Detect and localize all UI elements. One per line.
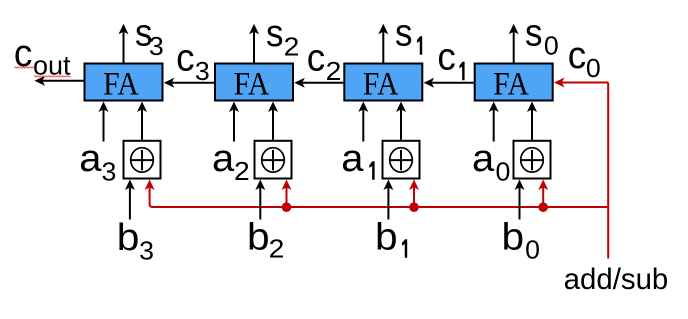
wire sum output s0 arrow xyxy=(509,24,519,63)
full adder FA1 box xyxy=(344,64,422,102)
wire red add/sub vertical line xyxy=(607,83,609,259)
svg-text:b: b xyxy=(502,216,525,258)
label a1 xyxy=(341,138,374,180)
label s2 xyxy=(266,11,299,61)
wire xor X2 output to FA2 arrow xyxy=(268,102,278,140)
svg-text:2: 2 xyxy=(269,234,285,264)
wire carry c1 from FA0 to FA1 xyxy=(424,78,474,88)
svg-text:c: c xyxy=(176,36,194,79)
svg-text:2: 2 xyxy=(234,156,250,186)
wire xor X3 output to FA3 arrow xyxy=(137,102,147,140)
wire a0 input arrow xyxy=(489,102,499,142)
wire b2 input arrow xyxy=(255,180,265,220)
xor gate X3 box xyxy=(124,141,161,179)
svg-text:FA: FA xyxy=(103,65,139,102)
label c0 xyxy=(568,34,601,83)
label b0 xyxy=(502,216,540,264)
svg-text:2: 2 xyxy=(326,56,342,86)
xor gate X0 box xyxy=(514,141,551,179)
label c3 xyxy=(176,36,210,86)
svg-text:0: 0 xyxy=(525,235,540,265)
svg-text:c: c xyxy=(307,36,325,79)
svg-text:s: s xyxy=(395,11,412,54)
junction dot on red bus at xor X0 xyxy=(538,202,548,212)
wire b1 input arrow xyxy=(383,180,393,220)
wire red arrow into xor X1 xyxy=(409,180,419,208)
svg-text:b: b xyxy=(117,216,140,258)
svg-text:s: s xyxy=(525,11,542,54)
svg-text:b: b xyxy=(375,216,398,258)
wire carry-out arrow from FA3 xyxy=(35,76,84,86)
xor gate X2 box xyxy=(255,141,292,179)
svg-text:a: a xyxy=(472,138,495,180)
wire b0 input arrow xyxy=(515,180,525,220)
svg-text:0: 0 xyxy=(586,53,601,83)
label b3 xyxy=(117,216,154,265)
label a0 xyxy=(472,138,510,187)
svg-text:FA: FA xyxy=(363,65,399,102)
label a3 xyxy=(79,138,116,187)
wire red horizontal bus line xyxy=(153,206,609,208)
svg-text:s: s xyxy=(266,11,283,54)
svg-text:add/sub: add/sub xyxy=(564,263,669,296)
wire red carry-in c0 arrow into FA0 xyxy=(554,78,608,88)
svg-text:3: 3 xyxy=(139,236,154,266)
svg-text:FA: FA xyxy=(493,65,529,102)
wire a1 input arrow xyxy=(358,102,368,142)
svg-text:c: c xyxy=(437,35,455,78)
svg-text:3: 3 xyxy=(102,157,117,187)
svg-text:FA: FA xyxy=(234,65,270,102)
wire carry c2 from FA1 to FA2 xyxy=(294,78,343,88)
svg-text:a: a xyxy=(79,138,102,180)
wire a2 input arrow xyxy=(229,102,239,142)
label s3 xyxy=(135,11,164,61)
svg-text:3: 3 xyxy=(195,56,210,86)
label s0 xyxy=(525,11,559,61)
wire b3 input arrow xyxy=(125,180,135,220)
svg-text:a: a xyxy=(341,138,364,180)
label b2 xyxy=(247,216,284,264)
svg-text:0: 0 xyxy=(544,31,559,61)
wire a3 input arrow xyxy=(99,102,109,142)
wire xor X0 output to FA0 arrow xyxy=(527,102,537,140)
wire sum output s1 arrow xyxy=(378,24,388,63)
label c1 xyxy=(437,35,464,80)
wire red arrow into xor X3 xyxy=(150,187,153,207)
label c2 xyxy=(307,36,342,86)
label b1 xyxy=(375,216,407,258)
spellcheck squiggle under out xyxy=(34,76,70,77)
junction dot on red bus at xor X1 xyxy=(409,202,419,212)
spellcheck squiggle under c xyxy=(15,67,35,68)
wire red arrow into xor X0 xyxy=(538,180,548,208)
svg-text:a: a xyxy=(212,138,235,180)
full adder FA0 box xyxy=(475,64,553,102)
svg-text:c: c xyxy=(568,34,586,77)
wire xor X1 output to FA1 arrow xyxy=(396,102,406,140)
wire red arrow into xor X2 xyxy=(282,180,292,208)
junction dot on red bus at xor X2 xyxy=(282,202,292,212)
label c_out xyxy=(14,31,71,80)
wire sum output s3 arrow xyxy=(119,24,129,63)
xor gate X1 box xyxy=(383,141,420,179)
svg-text:3: 3 xyxy=(149,31,164,61)
label s1 xyxy=(395,11,422,55)
svg-text:b: b xyxy=(247,216,270,258)
wire sum output s2 arrow xyxy=(249,24,259,63)
svg-text:0: 0 xyxy=(496,157,511,187)
svg-text:2: 2 xyxy=(284,31,300,61)
label a2 xyxy=(212,138,250,186)
wire carry c3 from FA2 to FA3 xyxy=(164,78,214,88)
full adder FA2 box xyxy=(215,64,293,102)
full adder FA3 box xyxy=(85,64,163,102)
